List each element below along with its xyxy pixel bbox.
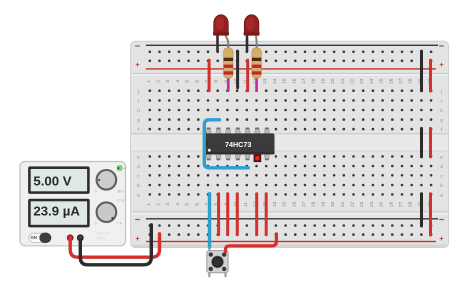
svg-text:g: g: [440, 119, 443, 124]
svg-text:4: 4: [175, 80, 180, 83]
svg-text:22: 22: [350, 78, 355, 84]
bottom plus rail line: [146, 241, 436, 242]
svg-text:a: a: [440, 194, 443, 199]
svg-text:0: 0: [95, 222, 97, 226]
svg-text:5.00 V: 5.00 V: [33, 174, 71, 189]
rail polarity labels: [135, 45, 444, 243]
svg-text:g: g: [137, 119, 140, 124]
supply ON switch: [29, 233, 51, 243]
supply red terminal: [67, 234, 74, 241]
blue wire a7 to pushbutton: [208, 192, 211, 249]
red wire pushbutton to bottom plus rail col14: [226, 234, 277, 252]
IC U1 74HC73 body: [204, 133, 274, 154]
supply current knob: [95, 199, 125, 226]
svg-text:19: 19: [320, 78, 325, 84]
svg-text:j: j: [440, 89, 442, 95]
svg-text:74HC73: 74HC73: [225, 140, 251, 149]
supply black wire to bottom minus rail: [80, 225, 151, 265]
LED D1: [213, 15, 229, 52]
svg-text:+: +: [439, 60, 444, 69]
svg-text:i: i: [138, 99, 139, 105]
row letters: [137, 89, 444, 199]
svg-text:13: 13: [262, 78, 267, 84]
svg-text:30 V: 30 V: [117, 189, 125, 193]
svg-text:i: i: [441, 99, 442, 105]
black jumper col29 top minus-rail to j29: [420, 50, 423, 93]
red jumper col30 f to e: [429, 127, 432, 158]
svg-text:19: 19: [320, 201, 325, 207]
svg-text:+: +: [135, 234, 140, 243]
svg-text:7.4: 7.4: [117, 222, 122, 226]
svg-text:20: 20: [330, 201, 335, 207]
svg-text:22: 22: [350, 201, 355, 207]
bottom minus rail line: [146, 218, 438, 219]
top plus rail line: [146, 68, 436, 69]
svg-text:d: d: [137, 164, 140, 170]
svg-text:+: +: [439, 234, 444, 243]
svg-text:e: e: [137, 156, 140, 161]
svg-text:h: h: [440, 108, 443, 114]
svg-text:16: 16: [291, 78, 296, 84]
svg-text:24: 24: [369, 201, 374, 207]
svg-text:23: 23: [359, 201, 364, 207]
svg-text:5: 5: [185, 203, 190, 206]
resistor R2 220 ohm: [252, 48, 261, 92]
svg-text:1: 1: [146, 203, 151, 206]
supply black terminal: [77, 234, 84, 241]
svg-text:18: 18: [311, 201, 316, 207]
top minus rail line: [146, 45, 438, 46]
svg-text:23.9 µA: 23.9 µA: [33, 204, 80, 219]
svg-text:8: 8: [214, 80, 219, 83]
svg-text:e: e: [440, 156, 443, 161]
svg-text:4: 4: [175, 203, 180, 206]
breadboard holes: [149, 51, 433, 236]
svg-text:18: 18: [311, 78, 316, 84]
svg-text:14: 14: [272, 201, 277, 207]
svg-text:2: 2: [156, 80, 161, 83]
black jumper col29 f to e: [420, 127, 423, 158]
power supply body: [20, 162, 126, 246]
svg-text:d: d: [440, 164, 443, 170]
black jumper col10 minus-rail to j10: [236, 50, 239, 90]
svg-text:b: b: [137, 183, 140, 189]
blue wire (g8 to d11 around chip): [204, 120, 248, 168]
svg-text:17: 17: [301, 78, 306, 84]
supply voltage display: [28, 166, 90, 194]
svg-text:ON: ON: [30, 235, 36, 240]
svg-text:27: 27: [398, 78, 403, 84]
svg-text:28: 28: [408, 201, 413, 207]
IC U1 74HC73 pins: [206, 128, 269, 161]
red mini wire on pin (e,12): [254, 154, 262, 162]
svg-text:CAD ƒ: CAD ƒ: [95, 236, 107, 241]
svg-text:21: 21: [340, 201, 345, 207]
red jumpers a-row to bottom plus rail (cols 8,9,10,12,13): [217, 192, 220, 236]
svg-text:+: +: [135, 60, 140, 69]
red jumper col30 a to bottom plus-rail: [429, 192, 432, 236]
svg-text:3: 3: [165, 80, 170, 83]
svg-text:11: 11: [243, 202, 248, 207]
red jumper col7 plus-rail to j7: [208, 59, 211, 93]
svg-text:3: 3: [165, 203, 170, 206]
svg-text:C0 W: C0 W: [117, 199, 125, 203]
svg-text:2: 2: [156, 203, 161, 206]
svg-text:25: 25: [379, 78, 384, 84]
supply red wire to bottom plus rail: [70, 234, 159, 257]
black jumper col29 a to bottom minus-rail: [420, 192, 423, 227]
svg-text:0: 0: [95, 189, 97, 193]
svg-text:1: 1: [146, 80, 151, 83]
svg-text:28: 28: [408, 78, 413, 84]
svg-text:j: j: [137, 89, 139, 95]
pushbutton S1: [207, 247, 228, 277]
svg-text:17: 17: [301, 201, 306, 207]
svg-text:5: 5: [185, 80, 190, 83]
svg-text:h: h: [137, 108, 140, 114]
red jumper col30 top plus-rail to j30: [429, 59, 432, 93]
svg-text:25: 25: [379, 201, 384, 207]
svg-text:16: 16: [291, 201, 296, 207]
column numbers: [146, 78, 432, 207]
svg-text:15: 15: [282, 78, 287, 84]
supply voltage knob: [95, 170, 125, 193]
svg-text:a: a: [137, 194, 140, 199]
svg-text:21: 21: [340, 78, 345, 84]
svg-text:23: 23: [359, 78, 364, 84]
svg-text:14: 14: [272, 78, 277, 84]
resistor R1 220 ohm: [224, 48, 233, 92]
supply current display: [28, 199, 90, 228]
svg-text:20: 20: [330, 78, 335, 84]
svg-text:15: 15: [282, 201, 287, 207]
LED D2: [244, 15, 260, 51]
svg-text:b: b: [440, 183, 443, 189]
supply power indicator: [117, 165, 128, 171]
svg-text:6: 6: [194, 203, 199, 206]
red jumper col11 plus-rail to j11: [246, 59, 249, 93]
svg-text:26: 26: [388, 201, 393, 207]
svg-text:27: 27: [398, 201, 403, 207]
breadboard body: [131, 41, 449, 247]
svg-text:6: 6: [194, 80, 199, 83]
svg-text:24: 24: [369, 78, 374, 84]
svg-text:26: 26: [388, 78, 393, 84]
